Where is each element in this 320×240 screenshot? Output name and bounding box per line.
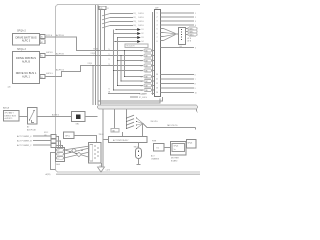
svg-text:9: 9 [195, 88, 196, 90]
return wire upper [98, 97, 163, 101]
svg-text:3: 3 [195, 21, 196, 23]
svg-text:5-B2 H: 5-B2 H [138, 13, 144, 15]
svg-text:1a: 1a [174, 149, 176, 151]
side box SPQ4 [187, 140, 197, 149]
svg-text:T3: T3 [108, 64, 110, 66]
svg-text:A(2R): A(2R) [46, 173, 51, 176]
branch to relay box [142, 124, 145, 137]
GHG pill A2 [57, 149, 64, 152]
bus riser x100 [100, 10, 102, 105]
svg-text:P4: P4 [140, 65, 142, 67]
svg-text:4PL: 4PL [44, 135, 47, 137]
diamond D5 [72, 148, 77, 153]
diode row D1 [115, 28, 143, 31]
svg-text:P5: P5 [140, 70, 142, 72]
svg-text:5-B2 H: 5-B2 H [138, 21, 144, 23]
svg-text:MOTHER: MOTHER [171, 158, 179, 160]
pill row 7 [120, 80, 154, 83]
svg-text:R2_: R2_ [134, 17, 137, 19]
svg-text:DIRECT BUS: DIRECT BUS [5, 115, 17, 117]
svg-text:4: 4 [157, 25, 158, 27]
svg-text:R5 5-B2 H: R5 5-B2 H [127, 46, 136, 48]
diode row D2 [113, 32, 144, 35]
bottom grey border line [56, 173, 200, 175]
J2F right wire pin2 [161, 16, 195, 18]
svg-text:ACT PWR 2A RLY: ACT PWR 2A RLY [113, 139, 129, 142]
breaker box A7 [28, 108, 38, 125]
GHG box [56, 148, 65, 162]
wire ACPS H [45, 37, 143, 51]
svg-text:ACPS G: ACPS G [52, 113, 60, 116]
svg-text:4-B: 4-B [8, 87, 12, 89]
junction on ACPS G [92, 65, 93, 66]
wire GRJ to band end [85, 116, 98, 118]
GHG pill B2 [57, 153, 64, 156]
J2F right wire pin11 [161, 78, 195, 80]
svg-text:eSPOPO: eSPOPO [5, 118, 13, 120]
svg-text:2: 2 [195, 17, 196, 19]
J2F pin numbers 10-14 [156, 74, 158, 94]
switch SW1 [126, 115, 137, 118]
GPLC box [64, 132, 75, 139]
J2F pin numbers 1-8 [157, 12, 158, 43]
svg-text:5-B2 H: 5-B2 H [138, 25, 144, 27]
svg-text:R4_: R4_ [134, 25, 137, 27]
relay K1 box [154, 144, 165, 152]
U6 output label 1 [186, 27, 198, 30]
svg-text:P3: P3 [140, 60, 142, 62]
svg-text:ALPL B: ALPL B [22, 60, 30, 63]
bus riser x124 [124, 51, 126, 77]
J2F right wire pin14 [161, 92, 195, 94]
junction on ACPS H [97, 50, 98, 51]
svg-text:SPQA-2: SPQA-2 [17, 30, 26, 33]
connector block B2 [13, 52, 40, 84]
svg-text:AT B: AT B [188, 37, 191, 40]
row left tiny labels [108, 49, 110, 91]
wire ACPS G [45, 66, 143, 77]
svg-text:11: 11 [156, 79, 158, 81]
svg-text:1: 1 [157, 12, 158, 14]
switch SW2 [126, 119, 137, 122]
riser x98 [97, 5, 99, 50]
bus riser x113 [113, 30, 115, 91]
svg-text:R3: R3 [140, 85, 142, 87]
relay contact box GRJ [72, 112, 86, 122]
svg-text:ACT: ACT [151, 155, 155, 158]
B1 pin 2 [40, 40, 45, 44]
svg-text:SPQA-3: SPQA-3 [17, 48, 26, 51]
net row 4-B2 H [108, 93, 140, 95]
bus merge triangle [161, 29, 180, 41]
svg-text:TBD01: TBD01 [99, 134, 104, 136]
boxed net label R5 [125, 44, 148, 47]
lattice dots [69, 150, 82, 154]
resistor pack U5 label box [99, 6, 106, 9]
svg-text:PWR: PWR [152, 140, 157, 142]
crossing lattice [65, 146, 89, 158]
coil bottom tick [137, 164, 141, 166]
wire to motherboard right [143, 124, 196, 128]
svg-text:D3: D3 [142, 37, 144, 39]
net row R6 [130, 93, 138, 95]
svg-text:3: 3 [157, 21, 158, 23]
svg-text:B1: B1 [41, 56, 43, 58]
pill row 4 [140, 64, 154, 67]
junction dots and drops [58, 136, 59, 137]
ground symbol [98, 167, 105, 172]
bus riser x117 [117, 38, 119, 86]
svg-text:ADOPC4B: ADOPC4B [27, 129, 36, 132]
J2F right wire pin3 [161, 20, 195, 22]
diode row D4 [114, 40, 143, 43]
ground wire [101, 163, 103, 167]
GHG pill C2 [57, 157, 64, 160]
bus riser x104 [104, 10, 106, 51]
B1 pin 1 [40, 34, 45, 38]
riser x98 to band [97, 51, 99, 106]
riser x95 [95, 5, 97, 55]
svg-text:5: 5 [157, 29, 158, 31]
diamond D6 [77, 152, 82, 157]
svg-text:4-BPS G: 4-BPS G [46, 73, 53, 75]
junction on ACPS B [95, 55, 96, 56]
coil top wire [138, 143, 140, 149]
wire ACPS B [45, 55, 143, 57]
svg-text:C2: C2 [58, 158, 60, 160]
resistor row R4 [102, 26, 133, 28]
svg-text:R1_: R1_ [134, 13, 137, 15]
connector block B1 [13, 34, 40, 46]
pill row 1 [140, 49, 154, 52]
svg-text:1: 1 [195, 13, 196, 15]
svg-text:2: 2 [157, 16, 158, 18]
svg-text:D2: D2 [142, 33, 144, 35]
svg-text:ACT POWER_B: ACT POWER_B [17, 139, 32, 142]
diode row D3 [117, 36, 144, 39]
svg-text:8: 8 [157, 41, 158, 43]
svg-text:ACT POWER_2: ACT POWER_2 [17, 144, 32, 147]
motherboard box [171, 142, 187, 156]
svg-text:SPL2: SPL2 [44, 132, 48, 134]
J2F right wire pin13 [161, 87, 195, 89]
switch drop to relay box [122, 132, 124, 137]
U6 output label 2 [186, 30, 198, 33]
svg-text:10: 10 [195, 93, 197, 95]
return wire lower [101, 99, 161, 104]
svg-text:T0: T0 [108, 49, 110, 51]
svg-text:2A2 LPG PG: 2A2 LPG PG [167, 124, 178, 127]
GPLC wire to U9 [74, 136, 97, 143]
switch bank vertical x114 [114, 109, 116, 131]
B2 pin 2 [40, 75, 45, 79]
svg-text:R2: R2 [140, 81, 142, 83]
svg-text:5-B2 H: 5-B2 H [138, 17, 144, 19]
pill row 9 [113, 89, 155, 92]
resistor row R3 [102, 22, 133, 24]
switch bank vertical x103 [102, 109, 104, 167]
svg-text:8: 8 [195, 84, 196, 86]
svg-text:5: 5 [195, 48, 196, 50]
motherboard inner module [172, 144, 185, 152]
svg-text:T2: T2 [108, 59, 110, 61]
svg-text:ACT POWER_4: ACT POWER_4 [17, 135, 32, 138]
svg-text:SW LPG: SW LPG [151, 121, 159, 123]
svg-text:CHASSIS: CHASSIS [151, 158, 160, 161]
svg-text:C-470: C-470 [106, 170, 111, 172]
pill row 3 [117, 59, 155, 62]
svg-text:J1: J1 [107, 8, 109, 10]
svg-text:BOARD: BOARD [171, 160, 178, 163]
wire B3 to breaker [19, 116, 28, 118]
svg-text:B2: B2 [58, 154, 60, 156]
svg-text:B2: B2 [41, 77, 43, 79]
svg-text:T1: T1 [108, 54, 110, 56]
thick grey bus band [98, 105, 198, 109]
output block U9 [89, 143, 102, 164]
svg-text:U5: U5 [100, 8, 102, 10]
svg-text:GHG: GHG [56, 164, 61, 166]
coil bottom wire [138, 159, 140, 165]
U6 output label 3 [186, 33, 198, 36]
svg-text:13: 13 [156, 88, 158, 90]
B2 pin 1 [40, 53, 45, 57]
svg-text:R1: R1 [140, 76, 142, 78]
svg-text:GRJ: GRJ [76, 124, 80, 126]
svg-text:P2: P2 [140, 55, 142, 57]
svg-text:SPQ4: SPQ4 [188, 142, 193, 144]
svg-text:7: 7 [157, 37, 158, 39]
pill row 8 [117, 84, 155, 87]
svg-text:A7: A7 [27, 126, 29, 129]
svg-text:ALPC 3: ALPC 3 [22, 40, 31, 43]
switch SW4 [126, 126, 137, 129]
svg-text:R7_5-B2 H: R7_5-B2 H [139, 97, 148, 99]
svg-text:4B: 4B [108, 92, 110, 94]
band right tick [196, 109, 198, 112]
svg-text:14: 14 [156, 92, 158, 94]
J2F right wire pin10 [161, 74, 195, 76]
switch SW3 [126, 122, 137, 125]
svg-text:GPLC: GPLC [65, 136, 71, 138]
J2F right wire pin12 [161, 83, 195, 85]
resistor row R1 [102, 14, 133, 16]
svg-text:ABCA: ABCA [3, 107, 9, 110]
svg-text:P1: P1 [140, 50, 142, 52]
svg-text:4-BPS B: 4-BPS B [46, 52, 53, 54]
relay box ACT PWR 2A RLY [109, 137, 148, 143]
relay left stub [103, 139, 109, 141]
connector J2F body [155, 10, 161, 97]
svg-text:6: 6 [195, 75, 196, 77]
svg-text:2A2: 2A2 [112, 129, 115, 132]
mixer box U6 [179, 28, 186, 45]
svg-text:XPU BATT: XPU BATT [5, 111, 15, 114]
svg-text:D4: D4 [142, 41, 144, 43]
riser x95 to band [95, 56, 97, 106]
svg-text:2: 2 [197, 112, 198, 114]
switch bank vertical x126 [126, 109, 128, 129]
J2F right wire pin4 [161, 24, 195, 26]
module outline grey rounded rect [56, 5, 203, 173]
switch collector [137, 118, 144, 129]
pin column 3x [51, 135, 56, 139]
svg-text:6: 6 [157, 33, 158, 35]
svg-text:SPQ4: SPQ4 [174, 146, 179, 148]
svg-text:12: 12 [156, 83, 158, 85]
svg-text:R3_: R3_ [134, 21, 137, 23]
svg-text:T4: T4 [108, 88, 110, 90]
wire K1 to motherboard [164, 147, 170, 149]
wire breaker to relay GRJ [37, 116, 71, 118]
bus riser x121 [120, 56, 122, 82]
svg-text:7: 7 [195, 79, 196, 81]
drop x93 to band [92, 66, 94, 106]
svg-text:10: 10 [156, 74, 158, 76]
svg-text:STQB: STQB [88, 63, 92, 65]
net row R7 [130, 96, 138, 98]
pill row 5 [113, 69, 155, 72]
svg-text:U6: U6 [180, 46, 182, 48]
svg-text:D1: D1 [142, 29, 144, 31]
resistor row R2 [102, 18, 133, 20]
bottom-left exit wire [51, 152, 56, 170]
source box B3 [4, 111, 20, 122]
pill row 2 [140, 54, 154, 57]
svg-text:ALPL 1: ALPL 1 [22, 75, 30, 78]
pill row 6 [124, 75, 155, 78]
switch bank label box [111, 129, 119, 133]
J2F right wire pin9 [161, 47, 195, 49]
svg-text:STQB: STQB [91, 53, 95, 55]
svg-text:R4: R4 [140, 90, 142, 92]
J2F right wire pin1 [161, 12, 195, 14]
svg-text:R6_5-B2 H: R6_5-B2 H [139, 93, 148, 95]
J2F left bundle wire [152, 12, 154, 95]
